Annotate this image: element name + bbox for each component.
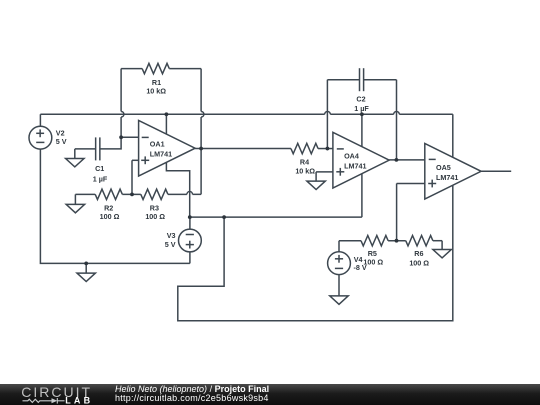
svg-text:OA5: OA5 — [436, 163, 451, 172]
svg-text:5 V: 5 V — [165, 240, 176, 249]
svg-text:10 kΩ: 10 kΩ — [295, 167, 315, 176]
svg-text:1 µF: 1 µF — [354, 104, 369, 113]
svg-text:100 Ω: 100 Ω — [100, 212, 120, 221]
svg-text:R2: R2 — [104, 204, 113, 213]
svg-text:R3: R3 — [150, 204, 159, 213]
svg-text:LM741: LM741 — [344, 161, 366, 170]
svg-text:5 V: 5 V — [56, 137, 67, 146]
svg-text:OA4: OA4 — [344, 151, 359, 160]
svg-text:1 µF: 1 µF — [93, 175, 108, 184]
svg-text:10 kΩ: 10 kΩ — [146, 87, 166, 96]
svg-text:LAB: LAB — [65, 395, 93, 405]
svg-text:OA1: OA1 — [150, 139, 165, 148]
svg-text:100 Ω: 100 Ω — [363, 258, 383, 267]
svg-text:LM741: LM741 — [150, 149, 172, 158]
svg-text:C1: C1 — [95, 164, 104, 173]
svg-text:R4: R4 — [300, 158, 309, 167]
svg-text:R6: R6 — [414, 249, 423, 258]
svg-text:C2: C2 — [356, 95, 365, 104]
svg-text:LM741: LM741 — [436, 173, 458, 182]
svg-text:100 Ω: 100 Ω — [145, 212, 165, 221]
svg-text:100 Ω: 100 Ω — [409, 259, 429, 268]
